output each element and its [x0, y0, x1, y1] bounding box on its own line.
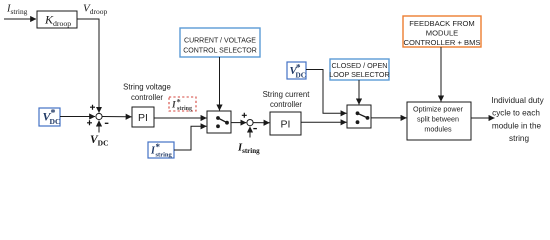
node I*string (computed current reference, red dashed) — [169, 96, 196, 112]
svg-text:CLOSED / OPEN: CLOSED / OPEN — [332, 61, 388, 70]
svg-text:DC: DC — [50, 117, 61, 126]
wire: optimizer output arrow — [471, 117, 494, 119]
PI block U2 (string current controller) — [270, 112, 301, 135]
svg-text:string: string — [509, 134, 529, 143]
svg-text:*: * — [177, 96, 181, 106]
wire: Kdroop output down to summing junction 1 — [77, 19, 99, 113]
svg-text:Individual duty: Individual duty — [491, 96, 544, 105]
svg-text:Optimize power: Optimize power — [413, 104, 464, 113]
svg-text:string: string — [156, 152, 173, 159]
wire: switch 1 output to summing junction 2 — [231, 122, 246, 124]
reference box V*DC (open-loop duty reference) — [287, 62, 306, 79]
wire: switch 2 output to optimizer block — [371, 117, 406, 119]
block: Optimize power split between modules — [407, 102, 471, 140]
reference box V*DC (string voltage reference) — [39, 108, 60, 126]
svg-text:I: I — [171, 101, 176, 111]
svg-text:LOOP SELECTOR: LOOP SELECTOR — [329, 70, 389, 79]
wire: V_DC up into summing junction 1 — [98, 121, 100, 133]
svg-text:modules: modules — [424, 124, 452, 133]
wire: feedback box down to optimizer block — [440, 47, 442, 101]
summing junction 1 — [96, 113, 102, 119]
PI block U1 (string voltage controller) — [132, 107, 154, 127]
svg-text:String current: String current — [263, 90, 311, 99]
svg-text:FEEDBACK FROM: FEEDBACK FROM — [409, 19, 474, 28]
svg-text:PI: PI — [138, 112, 148, 124]
svg-text:CONTROL SELECTOR: CONTROL SELECTOR — [183, 47, 257, 54]
svg-text:Istring: Istring — [6, 4, 28, 17]
sign + (top input, V_droop) — [90, 105, 95, 110]
wire: I*string box to mode switch 1 (bottom input) — [174, 126, 206, 150]
wire: PI2 output to mode switch 2 (bottom input) — [301, 121, 346, 123]
wire: I_string input arrow into K_droop — [4, 18, 36, 20]
selector box CLOSED / OPEN LOOP SELECTOR — [329, 59, 389, 80]
label: Individual duty cycle to each module in the string — [491, 96, 544, 143]
gain block Kdroop — [37, 11, 77, 28]
wire: junction 2 to PI current controller — [253, 122, 269, 124]
svg-text:cycle to each: cycle to each — [492, 109, 540, 118]
svg-text:MODULE: MODULE — [426, 28, 459, 37]
wire: selector 1 control line down to switch 1 — [219, 57, 221, 110]
summing junction 2 — [247, 120, 253, 126]
svg-text:CONTROLLER + BMS: CONTROLLER + BMS — [403, 38, 480, 47]
sign - (bottom input) — [253, 128, 257, 130]
svg-text:DC: DC — [296, 71, 306, 79]
svg-text:VDC: VDC — [90, 134, 109, 148]
svg-text:string: string — [177, 106, 192, 112]
sign - (bottom input, V_DC) — [105, 122, 109, 124]
svg-text:*: * — [156, 142, 161, 152]
reference box I*string (blue, external current reference) — [148, 142, 174, 159]
sign + (left input, V*DC) — [87, 120, 92, 125]
wire: V*DC box 2 to mode switch 2 (top input) — [306, 70, 346, 114]
switch SW1 (current/voltage mode switch) — [207, 111, 231, 133]
wire: PI1 output to mode switch 1 (top input) — [154, 117, 206, 119]
sign + (left input) — [242, 113, 247, 118]
wire: junction 1 to PI voltage controller — [102, 116, 131, 118]
svg-text:Istring: Istring — [237, 143, 260, 156]
wire: V*DC to summing junction 1 — [60, 116, 95, 118]
svg-text:PI: PI — [281, 119, 291, 131]
svg-text:CURRENT / VOLTAGE: CURRENT / VOLTAGE — [184, 38, 256, 45]
svg-text:String voltage: String voltage — [123, 83, 171, 92]
switch SW2 (closed/open loop switch) — [347, 105, 371, 128]
svg-text:controller: controller — [270, 100, 302, 109]
wire: I_string up into summing junction 2 — [249, 127, 251, 138]
wire: selector 2 control line down to switch 2 — [358, 80, 360, 104]
feedback box FEEDBACK FROM MODULE CONTROLLER + BMS — [403, 16, 481, 47]
selector box CURRENT / VOLTAGE CONTROL SELECTOR — [180, 28, 260, 57]
svg-text:module in the: module in the — [492, 121, 542, 130]
svg-text:controller: controller — [131, 93, 163, 102]
svg-text:Vdroop: Vdroop — [83, 3, 107, 17]
svg-text:split between: split between — [417, 114, 459, 123]
